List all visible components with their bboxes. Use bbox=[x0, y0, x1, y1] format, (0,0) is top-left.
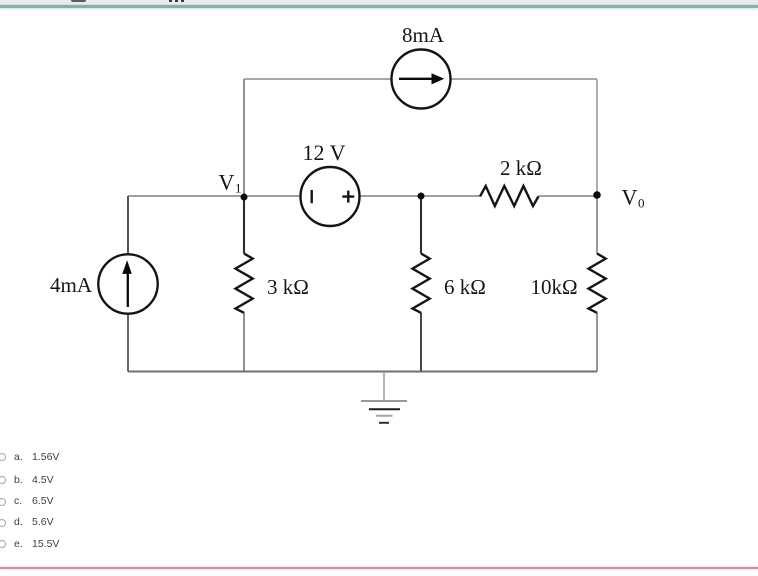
svg-text:1: 1 bbox=[235, 181, 242, 196]
answer option e bbox=[0, 540, 6, 548]
resistor R1 2k horizontal bbox=[480, 186, 539, 206]
node V1 dot bbox=[241, 194, 248, 201]
wire mid node down to 6k bbox=[420, 196, 422, 254]
svg-text:V: V bbox=[622, 185, 638, 210]
wire 2k to V0 bbox=[539, 195, 598, 197]
answer option d bbox=[0, 519, 6, 527]
current source I1 8mA bbox=[392, 50, 451, 109]
node V0 dot bbox=[593, 191, 601, 199]
ground bbox=[361, 372, 407, 423]
wire V1 down to 3k bbox=[243, 197, 245, 254]
svg-text:V: V bbox=[219, 170, 235, 195]
wire 10k to bottom bbox=[596, 313, 598, 372]
toolbar dots icon fragment bbox=[169, 0, 172, 2]
wire 3k to bottom bbox=[243, 313, 245, 372]
bottom pink divider bbox=[0, 567, 758, 570]
label V1 bbox=[219, 170, 242, 196]
wire V0 down to 10k bbox=[596, 195, 598, 254]
wire 6k to bottom bbox=[420, 313, 422, 372]
wire left vertical lower (4mA to bottom) bbox=[127, 314, 129, 372]
resistor R4 10k vertical bbox=[589, 254, 606, 313]
resistor R2 3k vertical bbox=[236, 254, 253, 313]
svg-text:6 kΩ: 6 kΩ bbox=[444, 275, 486, 299]
voltage source V 12V bbox=[301, 167, 360, 226]
wire left-upper vertical (V1 to top) bbox=[243, 79, 245, 197]
answer option b bbox=[0, 476, 6, 484]
wire bottom horizontal bbox=[128, 371, 597, 373]
answer option a bbox=[0, 453, 6, 461]
svg-text:12 V: 12 V bbox=[303, 140, 346, 165]
svg-text:0: 0 bbox=[638, 196, 645, 211]
wire top horizontal bbox=[244, 78, 597, 80]
svg-text:3 kΩ: 3 kΩ bbox=[267, 275, 309, 299]
wire left vertical upper (to 4mA) bbox=[127, 196, 129, 255]
svg-text:4mA: 4mA bbox=[50, 273, 93, 297]
current source I2 4mA bbox=[98, 254, 157, 313]
node mid dot bbox=[418, 193, 425, 200]
top toolbar strip bbox=[0, 0, 758, 5]
svg-text:10kΩ: 10kΩ bbox=[531, 275, 578, 299]
svg-text:2 kΩ: 2 kΩ bbox=[500, 156, 542, 180]
answer option c bbox=[0, 498, 6, 506]
wire middle horizontal (4mA branch to 2k) bbox=[128, 195, 480, 197]
wire right vertical (top to V0) bbox=[596, 79, 598, 195]
resistor R3 6k vertical bbox=[413, 254, 430, 313]
teal divider line bbox=[0, 5, 758, 8]
toolbar icon fragment bbox=[71, 0, 86, 2]
svg-text:8mA: 8mA bbox=[402, 23, 445, 47]
label V0 bbox=[622, 185, 645, 211]
